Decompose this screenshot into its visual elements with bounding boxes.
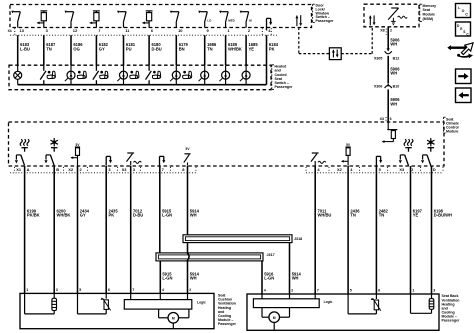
Memory Seat Module box — [364, 4, 419, 27]
related links double arrow icon — [447, 43, 473, 58]
cushion module pin 5 — [79, 288, 81, 292]
svg-text:Passenger: Passenger — [218, 322, 237, 326]
cushion heater element — [25, 293, 57, 314]
serial data horizontal run — [299, 53, 372, 55]
signal output pin 5 — [376, 156, 382, 165]
wire 6198 D-BU/WH to seat back module — [432, 166, 453, 294]
wire 6182 GY from X4 pin 7 to heated seat switch — [96, 35, 108, 65]
seat back module pin 2 — [291, 288, 293, 292]
svg-text:B10: B10 — [393, 84, 400, 88]
pin label 7 at x161.6 — [162, 167, 165, 172]
splice pack J318 — [183, 235, 302, 243]
LED indicator back — [170, 65, 180, 85]
serial data arrows in door/window switch — [295, 15, 302, 26]
pin label A at x26.6 — [27, 167, 30, 172]
wire 5915 L-GN from pin 7 to splice J317 — [160, 166, 172, 253]
pin label 4 at x317.4 — [317, 167, 320, 172]
svg-text:5: 5 — [350, 288, 352, 292]
svg-text:MED: MED — [228, 18, 234, 22]
svg-text:(MSM): (MSM) — [423, 17, 434, 21]
wire 6197 YE to seat back module — [411, 166, 423, 294]
svg-text:2: 2 — [390, 28, 392, 32]
cushion module pin 3 — [56, 288, 58, 292]
cushion module pin 7 — [132, 288, 134, 292]
svg-text:6: 6 — [378, 288, 380, 292]
Seat Back module label — [442, 294, 461, 322]
switch in MSM — [388, 8, 398, 20]
indicator lamp L2 in door/window switch — [89, 11, 100, 28]
back arrow icon — [456, 88, 472, 103]
wire 1685 YE from X4 pin 2 to heated seat switch — [246, 35, 258, 65]
svg-text:WH: WH — [390, 42, 397, 47]
seat icon at seat heat sw cushion — [47, 71, 55, 79]
in-line connector X305 pin B12 — [374, 48, 399, 60]
svg-text:L-BU: L-BU — [20, 46, 30, 51]
svg-text:TN: TN — [379, 213, 385, 218]
cushion logic block — [124, 293, 206, 309]
wire 2435 PK to cushion module — [106, 166, 118, 293]
svg-text:X3: X3 — [122, 167, 128, 172]
pin label X2 at x68.2 — [68, 167, 74, 172]
pin label 2 at x79.5 — [80, 167, 83, 172]
svg-text:WH/BK: WH/BK — [57, 213, 71, 218]
svg-text:1: 1 — [26, 288, 28, 292]
svg-text:J318: J318 — [294, 237, 302, 241]
svg-text:Passenger: Passenger — [316, 19, 335, 23]
Seat Cushion Ventilation Heating and Cooling Module box — [20, 293, 214, 328]
svg-text:WH: WH — [190, 276, 197, 281]
seat back module pin 4 — [264, 288, 266, 292]
switch HI in door/window switch — [240, 11, 252, 28]
svg-text:Passenger: Passenger — [442, 319, 461, 323]
svg-text:2: 2 — [291, 288, 293, 292]
wire 5914 WH from J318 to seat back module pin 2 — [290, 243, 302, 294]
LOC hyperlink icon — [456, 4, 471, 18]
Seat Back Ventilation Heating and Cooling Module box — [247, 294, 439, 330]
splice pack J317 — [156, 253, 275, 261]
cooling driver switch pin D — [421, 138, 435, 166]
pin label X1 at x16.2 — [16, 167, 22, 172]
svg-text:WH/BK: WH/BK — [228, 46, 242, 51]
pin 1 of X4 — [227, 28, 230, 33]
wire 6199 PK/BK to cushion module — [25, 166, 40, 293]
pin 2 of X4 — [248, 28, 251, 33]
pin label 4 at x350.3 — [350, 167, 353, 172]
pin label 3 at x108.4 — [108, 167, 111, 172]
pin label D at x432.9 — [433, 167, 436, 172]
pin label 8 at x182.2 — [182, 167, 185, 172]
wire 5915 L-GN from J317 to cushion module pin 4 — [160, 261, 172, 294]
LED indicator LO — [199, 65, 209, 85]
return wire 6184 PK into switch common bus — [266, 65, 268, 85]
pin 12 of X4 — [73, 28, 78, 33]
svg-text:O: O — [462, 9, 465, 13]
switch S1 left heat sw in door/window switch — [11, 11, 20, 28]
svg-text:L-GN: L-GN — [162, 276, 172, 281]
pin label 3 at x132.9 — [133, 167, 136, 172]
svg-text:HI: HI — [249, 18, 252, 22]
5V reference X2 2 — [70, 143, 80, 166]
seat back thermistor — [348, 294, 381, 314]
resistor in MSM — [388, 16, 407, 19]
svg-text:6: 6 — [108, 288, 110, 292]
svg-text:1: 1 — [412, 288, 414, 292]
svg-text:X2: X2 — [68, 167, 74, 172]
svg-text:X8: X8 — [380, 28, 384, 32]
switch S4 in door/window switch — [170, 11, 179, 28]
svg-text:X4: X4 — [8, 29, 12, 33]
wire 7012 D-BU to cushion module — [131, 166, 144, 293]
cushion module pin 6 — [108, 288, 110, 292]
svg-text:TN: TN — [350, 213, 356, 218]
switch seat vent sw cushion — [93, 65, 99, 85]
svg-text:WH: WH — [390, 71, 397, 76]
heater driver switch X1 A — [15, 139, 29, 165]
wire 5906 WH from MSM — [388, 27, 400, 49]
Door Lock/Window Switch - Passenger label — [313, 4, 334, 23]
svg-text:Logic: Logic — [197, 301, 206, 305]
svg-text:YE: YE — [413, 213, 419, 218]
thermistor input switch X3 3 — [127, 153, 142, 166]
svg-text:GY: GY — [99, 46, 105, 51]
wire 5906 WH middle segment — [388, 56, 400, 84]
LED indicator HI — [240, 65, 250, 85]
svg-text:BN: BN — [179, 46, 185, 51]
wire 6185 WH/BK from X4 pin 1 to heated seat switch — [226, 35, 242, 65]
signal output pin 7 — [160, 156, 166, 165]
seat icon at indicator back — [183, 71, 192, 79]
switch seat heat sw cushion — [40, 65, 46, 85]
Door Lock/Window Switch - Passenger module box — [10, 5, 312, 28]
cushion module pin 4 — [162, 288, 164, 292]
svg-text:J317: J317 — [267, 253, 275, 257]
pin 6 of X4 — [151, 28, 154, 33]
wire 1686 TN from X4 pin 9 to heated seat switch — [205, 35, 217, 65]
LED indicator MED — [219, 65, 229, 85]
seat icon at heat indicator cushion — [77, 71, 86, 79]
svg-text:X305: X305 — [374, 56, 382, 60]
svg-text:L-GN: L-GN — [264, 276, 274, 281]
seat back module pin 6 — [378, 288, 380, 292]
serial data arrows in MSM — [369, 15, 376, 25]
pin X3 6 of seat climate control module — [380, 117, 392, 122]
wire 6180 D-BU from X4 pin 6 to heated seat switch — [149, 35, 162, 65]
svg-text:Logic: Logic — [324, 300, 333, 304]
switch LO in door/window switch — [198, 11, 212, 28]
svg-text:GY: GY — [80, 213, 86, 218]
seat back module pin 1 — [412, 288, 414, 292]
seat back heater element — [411, 294, 434, 313]
switch MED in door/window switch — [219, 11, 235, 28]
svg-text:Passenger: Passenger — [275, 85, 294, 89]
svg-text:OG: OG — [73, 46, 79, 51]
pin label X2 at x337.0 — [337, 167, 343, 172]
svg-text:D-BU/WH: D-BU/WH — [434, 213, 452, 218]
wire 5906 WH lower segment — [388, 89, 400, 122]
wire 5914 WH through J317 down to cushion module pin 2 — [188, 243, 200, 294]
backlight lamp in seat switch — [14, 65, 22, 85]
pin 3 of X4 — [46, 28, 49, 33]
cooling driver switch X1 B — [44, 138, 58, 166]
connector row of seat climate control module — [10, 167, 443, 173]
svg-text:7: 7 — [317, 288, 319, 292]
svg-text:4: 4 — [162, 288, 164, 292]
svg-text:PK/BK: PK/BK — [27, 213, 40, 218]
MSM pin X8 2 — [380, 28, 392, 35]
pin label X3 at x121.6 — [122, 167, 128, 172]
seat icon at seat vent sw cushion — [100, 71, 108, 79]
svg-text:X306: X306 — [374, 84, 382, 88]
svg-text:L-GN: L-GN — [162, 213, 172, 218]
svg-text:WH/BU: WH/BU — [318, 213, 332, 218]
ground in MSM — [391, 18, 395, 25]
svg-text:X3: X3 — [380, 117, 384, 121]
svg-text:Module: Module — [446, 130, 458, 134]
svg-text:YE: YE — [249, 46, 255, 51]
svg-text:TN: TN — [207, 46, 213, 51]
seat back module pin 5 — [350, 288, 352, 292]
switch S2 in door/window switch — [65, 11, 74, 28]
svg-text:A: A — [27, 167, 30, 172]
svg-text:4: 4 — [264, 288, 266, 292]
in-line connector X306 pin B10 — [374, 83, 399, 88]
wire 6183 L-BU from X4 pin 13 to heated seat switch — [18, 35, 30, 65]
DESC hyperlink icon — [456, 22, 471, 36]
serial data gateway symbol — [329, 48, 341, 60]
5V switch pin 8 — [184, 147, 191, 165]
svg-text:B12: B12 — [393, 56, 400, 60]
pin 13 of X4 — [20, 28, 25, 33]
wire 6179 BN from X4 pin 10 to heated seat switch — [176, 35, 188, 65]
svg-text:X1: X1 — [16, 167, 22, 172]
LED vent indicator cushion — [117, 65, 127, 85]
cushion blower motor — [159, 309, 189, 328]
seat back module pin 7 — [317, 288, 319, 292]
pin label X3 at x399.4 — [399, 167, 405, 172]
pin label J at x410.7 — [411, 167, 413, 172]
wire 6186 OG from X4 pin 12 to heated seat switch — [71, 35, 83, 65]
wire 2434 GY to cushion module — [78, 166, 90, 293]
svg-text:2: 2 — [189, 288, 191, 292]
svg-text:C: C — [465, 12, 468, 16]
seat back module pin 3 — [433, 288, 435, 292]
indicator lamp L1 in door/window switch — [37, 11, 48, 28]
pin 10 of X4 — [178, 28, 183, 33]
seat icon at seat sw back — [152, 71, 160, 79]
pin 4 of X4 — [268, 28, 271, 33]
svg-text:PK: PK — [109, 213, 115, 218]
Heated and Cooled Seat Switch - Passenger label — [272, 65, 293, 90]
Seat Climate Control Module label — [443, 117, 458, 134]
connector X4 row — [8, 28, 277, 35]
seat back logic block — [253, 294, 332, 308]
5V reference X2 4 — [341, 143, 351, 166]
pin 7 of X4 — [98, 28, 101, 33]
svg-text:M: M — [172, 316, 175, 320]
svg-text:6: 6 — [390, 117, 392, 121]
wire 5914 WH from pin 8 to splice J318 — [188, 166, 200, 235]
pin 11 of X4 — [125, 28, 130, 33]
signal output pin 3 — [106, 156, 112, 165]
pin 9 of X4 — [207, 28, 210, 33]
wire 6181 PU from X4 pin 11 to heated seat switch — [124, 35, 136, 65]
svg-text:X3: X3 — [399, 167, 405, 172]
input resistor from pin X3 6 — [382, 122, 398, 143]
svg-text:D-BU: D-BU — [152, 46, 162, 51]
forward arrow icon — [456, 69, 472, 84]
svg-text:5: 5 — [79, 288, 81, 292]
svg-text:3: 3 — [433, 288, 435, 292]
output arrow pin 4 — [267, 18, 273, 30]
svg-text:B: B — [56, 167, 59, 172]
heater driver switch X3 J — [399, 139, 413, 165]
svg-text:WH: WH — [390, 101, 397, 106]
Memory Seat Module label — [420, 4, 436, 22]
wire 6187 TN from X4 pin 3 to heated seat switch — [44, 35, 56, 65]
svg-text:TN: TN — [46, 46, 52, 51]
svg-text:X2: X2 — [337, 167, 343, 172]
cushion thermistor — [78, 293, 111, 314]
svg-text:PK: PK — [269, 46, 275, 51]
svg-text:D-BU: D-BU — [133, 213, 143, 218]
wire 5916 L-GN from J317 to seat back module pin 4 — [262, 261, 274, 294]
wire 2436 TN to seat back module — [348, 166, 360, 294]
Seat Cushion module label — [218, 294, 237, 326]
wire 7011 WH/BU to seat back module — [315, 166, 331, 294]
switch S3 in door/window switch — [117, 11, 126, 28]
indicator lamp L3 in door/window switch — [142, 11, 153, 28]
pin label B at x56.2 — [56, 167, 59, 172]
cushion module pin 1 — [26, 288, 28, 292]
common bus in seat switch — [18, 84, 267, 86]
Seat Climate Control Module box — [9, 122, 445, 166]
wire 6184 PK from X4 pin 4 to heated seat switch — [267, 35, 279, 65]
svg-text:7: 7 — [132, 288, 134, 292]
LED heat indicator cushion — [65, 65, 75, 85]
svg-text:PU: PU — [126, 46, 132, 51]
wire 2482 TN to seat back module — [376, 166, 388, 294]
wire 6200 WH/BK to cushion module — [54, 166, 70, 293]
serial data wire up to memory seat module — [371, 27, 373, 54]
pin label 5 at x378.6 — [379, 167, 382, 172]
serial data wire from door/window switch — [298, 28, 300, 54]
switch seat sw back — [146, 65, 152, 85]
svg-text:D: D — [433, 167, 436, 172]
svg-text:WH: WH — [292, 276, 299, 281]
svg-text:WH: WH — [190, 213, 197, 218]
seat icon at vent indicator cushion — [130, 71, 139, 79]
svg-text:3: 3 — [56, 288, 58, 292]
svg-text:M: M — [273, 316, 276, 320]
thermistor input switch pin 4 — [311, 153, 326, 166]
seat back blower motor — [262, 308, 290, 331]
Heated and Cooled Seat Switch - Passenger box — [9, 65, 271, 90]
cushion module pin 2 — [189, 288, 191, 292]
